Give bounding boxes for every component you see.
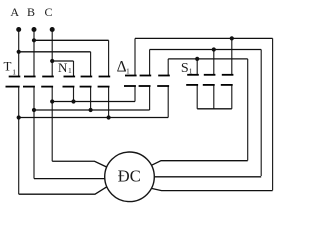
svg-text:C: C <box>44 5 52 19</box>
svg-text:S: S <box>181 61 189 76</box>
svg-text:B: B <box>27 5 35 19</box>
svg-text:T: T <box>4 59 12 74</box>
svg-text:ĐC: ĐC <box>118 167 141 186</box>
svg-text:1: 1 <box>12 68 16 77</box>
svg-text:1: 1 <box>189 66 193 75</box>
svg-text:1: 1 <box>126 66 130 75</box>
svg-text:N: N <box>58 60 68 75</box>
svg-text:1: 1 <box>68 66 72 75</box>
svg-text:A: A <box>10 5 19 19</box>
